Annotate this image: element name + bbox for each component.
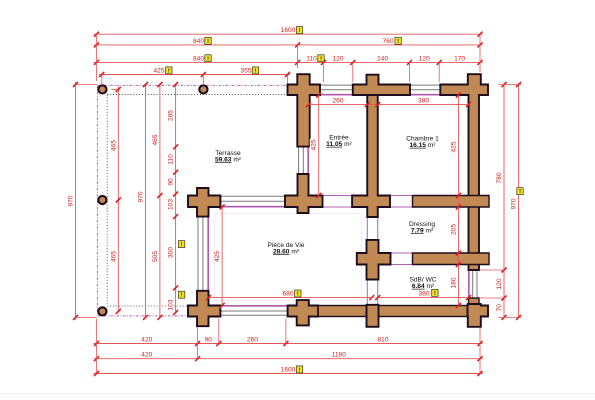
dim 380 SdB	[378, 297, 469, 299]
window right wall (SdB/WC)	[476, 270, 478, 298]
dim line 970 terrace	[145, 85, 147, 318]
svg-text:120: 120	[496, 278, 503, 289]
svg-text:!: !	[207, 39, 209, 45]
svg-text:!: !	[434, 291, 436, 297]
wall corner post NW (house)	[288, 74, 321, 146]
post bottom wall on partition axis	[367, 305, 379, 327]
svg-text:425: 425	[214, 251, 221, 262]
svg-text:!: !	[519, 189, 521, 195]
post SW corner Piece de Vie	[188, 291, 220, 326]
svg-text:970: 970	[511, 198, 518, 209]
room outline SdB/WC	[378, 265, 469, 306]
room outline Dressing	[378, 207, 469, 253]
svg-text:465: 465	[110, 251, 117, 262]
svg-text:355: 355	[240, 68, 251, 75]
post SdB wall on partition	[357, 240, 391, 280]
wall Dressing north	[413, 196, 469, 208]
post mid wall at right wall	[467, 196, 489, 208]
svg-text:!: !	[299, 367, 301, 373]
svg-text:505: 505	[152, 251, 159, 262]
dim extension lines bottom	[96, 319, 98, 374]
post mid wall at Piece NW corner	[188, 188, 220, 217]
svg-text:!: !	[181, 242, 183, 248]
terrace post circle bottom-left	[98, 307, 106, 315]
wall corner post NE and right wall	[440, 74, 488, 270]
svg-text:810: 810	[377, 337, 388, 344]
window/door house left wall (Entree)	[298, 147, 300, 174]
dim 680 Piece de Vie	[209, 297, 372, 299]
post mid wall at house left wall	[285, 174, 323, 213]
svg-text:110: 110	[306, 55, 317, 62]
svg-text:425: 425	[153, 68, 164, 75]
dim 260/380 interior top	[309, 104, 469, 106]
svg-text:300: 300	[168, 247, 175, 258]
svg-text:465: 465	[152, 134, 159, 145]
wall bottom (south)	[318, 306, 468, 317]
dim 425 Piece de Vie	[221, 207, 223, 306]
svg-text:680: 680	[282, 291, 293, 298]
svg-text:90: 90	[168, 178, 175, 186]
svg-text:!: !	[181, 293, 183, 299]
svg-text:420: 420	[141, 352, 152, 359]
faint inner lining Piece de Vie	[215, 214, 362, 301]
dim line 1600 top	[94, 33, 483, 35]
svg-text:59.63 m²: 59.63 m²	[215, 156, 242, 163]
svg-text:28.60 m²: 28.60 m²	[273, 248, 300, 255]
svg-text:425: 425	[450, 141, 457, 152]
svg-text:!: !	[168, 68, 170, 74]
svg-text:840: 840	[193, 38, 204, 45]
svg-text:240: 240	[377, 55, 388, 62]
svg-text:970: 970	[68, 195, 75, 206]
dim line 1600 bottom	[94, 373, 483, 375]
svg-text:970: 970	[138, 191, 145, 202]
window top wall left	[320, 84, 353, 86]
dim extension lines top	[96, 34, 98, 81]
svg-text:380: 380	[418, 291, 429, 298]
svg-text:760: 760	[382, 38, 393, 45]
wall top center segment with post	[353, 75, 410, 95]
svg-text:!: !	[255, 68, 257, 74]
right wall lower segment	[469, 298, 480, 306]
terrace post circle top-mid	[199, 85, 207, 93]
terrace post circle left-mid	[98, 196, 106, 204]
dim chain 465/505	[159, 85, 161, 318]
terrace inner dotted deck line	[107, 94, 298, 96]
svg-text:465: 465	[110, 140, 117, 151]
svg-text:6.84 m²: 6.84 m²	[412, 283, 435, 290]
window Piece de Vie west wall	[197, 217, 199, 291]
post SdB wall at right wall	[467, 253, 489, 265]
dim chain 425/205/180 right interior	[457, 95, 459, 306]
svg-text:1600: 1600	[281, 367, 296, 374]
svg-text:16.15 m²: 16.15 m²	[409, 142, 436, 149]
dim line 420/90/260/810 bottom	[94, 343, 483, 345]
dim chain 780/120/70 right	[503, 85, 505, 318]
svg-text:170: 170	[454, 55, 465, 62]
svg-text:90: 90	[205, 337, 213, 344]
svg-text:120: 120	[332, 55, 343, 62]
svg-text:260: 260	[332, 98, 343, 105]
svg-text:103: 103	[168, 299, 175, 310]
svg-text:260: 260	[247, 337, 258, 344]
post SE corner	[468, 304, 489, 327]
room outline Chambre 1	[378, 95, 469, 196]
dim line 840/110/120/240/120/170	[94, 61, 483, 63]
svg-text:120: 120	[419, 55, 430, 62]
svg-text:70: 70	[496, 304, 503, 312]
dim line 420/1180 bottom	[94, 358, 483, 360]
dim line 425/355 terrace	[99, 74, 290, 76]
wall SdB north	[413, 253, 469, 265]
dim line 970 far left	[75, 82, 77, 320]
svg-text:11.05 m²: 11.05 m²	[326, 141, 352, 148]
dim extension lines right	[499, 84, 522, 86]
svg-text:!: !	[299, 28, 301, 34]
svg-text:265: 265	[168, 110, 175, 121]
svg-text:!: !	[397, 39, 399, 45]
svg-text:840: 840	[193, 55, 204, 62]
svg-text:780: 780	[496, 172, 503, 183]
svg-text:110: 110	[168, 154, 175, 165]
svg-text:7.79 m²: 7.79 m²	[411, 227, 434, 234]
dim line 840/760	[94, 44, 483, 46]
window mid wall (terrace side)	[220, 195, 285, 197]
svg-text:!: !	[207, 56, 209, 62]
dim line 970 right	[518, 85, 520, 318]
dim chain 265/110/90/103/300/103	[175, 85, 177, 313]
room outline Entree	[309, 95, 368, 196]
svg-text:180: 180	[450, 277, 457, 288]
dim chain 465/465 terrace	[117, 87, 119, 311]
partition Entree/Chambre with posts	[352, 95, 390, 217]
svg-text:380: 380	[418, 98, 429, 105]
terrace post circle top-left	[98, 85, 106, 93]
dim 425 Entree	[318, 95, 320, 196]
svg-text:420: 420	[141, 337, 152, 344]
terrace outer dash-dot outline	[97, 84, 298, 86]
room outline Piece de Vie	[209, 207, 368, 306]
svg-text:1600: 1600	[281, 27, 296, 34]
post bottom wall at house left wall axis	[288, 300, 319, 325]
svg-text:!: !	[297, 292, 299, 298]
svg-text:205: 205	[450, 224, 457, 235]
window top wall right	[410, 84, 440, 86]
svg-text:1180: 1180	[332, 352, 347, 359]
svg-text:425: 425	[311, 139, 318, 150]
svg-text:103: 103	[168, 199, 175, 210]
svg-text:!: !	[320, 56, 322, 62]
bottom window-edge band	[0, 394, 595, 400]
window bottom wall (Piece de Vie)	[220, 305, 287, 307]
